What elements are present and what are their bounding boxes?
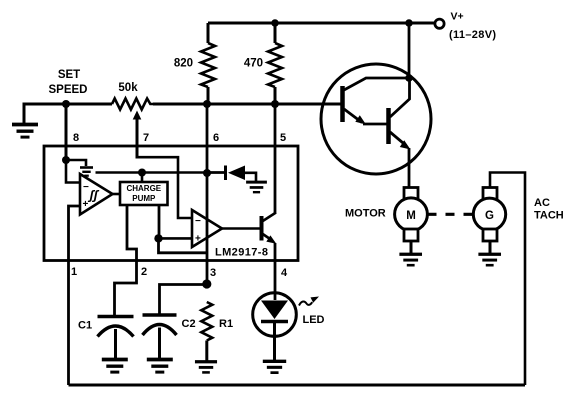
ground internal op-amp [80, 168, 93, 176]
diode zener [207, 171, 226, 174]
svg-text:CHARGE: CHARGE [126, 184, 161, 193]
svg-text:LED: LED [303, 314, 325, 326]
svg-text:−: − [83, 182, 89, 193]
svg-text:4: 4 [281, 267, 288, 279]
node pin 3 junction [202, 279, 211, 288]
svg-text:TACH: TACH [534, 210, 564, 222]
wire op2 out to Q3 base [222, 227, 260, 230]
wire to internal ground [66, 160, 86, 166]
wire bottom rail [69, 384, 526, 387]
wire pin3 to C2 [160, 285, 207, 315]
svg-text:6: 6 [213, 132, 219, 144]
pot wiper arrow (pin 7) [133, 111, 142, 120]
transistor darlington circle [321, 64, 431, 174]
svg-text:1: 1 [71, 266, 77, 278]
node SET SPEED ground [23, 104, 26, 124]
LED D1 [253, 293, 297, 337]
svg-text:LM2917-8: LM2917-8 [215, 247, 268, 259]
node V+ / collector riser [405, 19, 413, 27]
svg-text:MOTOR: MOTOR [345, 208, 386, 220]
svg-text:C2: C2 [182, 318, 196, 330]
IC box LM2917-8 [44, 146, 298, 261]
wire motor shaft coupling [428, 213, 474, 216]
node pin6 junction [203, 169, 211, 177]
resistor R1 [201, 302, 212, 341]
svg-text:G: G [485, 210, 494, 222]
wire charge pump to pin 2 [115, 205, 137, 316]
svg-text:M: M [406, 210, 416, 222]
potentiometer 50k [112, 99, 153, 110]
charge pump box [120, 182, 168, 205]
svg-text:3: 3 [210, 267, 216, 279]
wire pin6 to pin3 [206, 104, 209, 284]
node 470/pin5 [271, 100, 279, 108]
LED light arrow [299, 301, 312, 305]
node charge pump tap [138, 169, 146, 177]
transistor Q1 [340, 86, 345, 122]
svg-text:5: 5 [280, 132, 286, 144]
node 820/pin6 [203, 100, 211, 108]
wire pin8 to op1 minus [66, 160, 80, 183]
wire op1 out to charge pump [112, 193, 120, 196]
svg-text:8: 8 [73, 132, 79, 144]
svg-text:R1: R1 [219, 318, 233, 330]
svg-text:2: 2 [141, 266, 147, 278]
wire charge pump to op2 plus [158, 205, 161, 238]
wire op1 plus to pin 1 [69, 206, 81, 385]
wire pin 5 [274, 104, 277, 213]
svg-text:50k: 50k [118, 82, 138, 94]
wire pin 4 to LED [274, 243, 277, 300]
svg-text:820: 820 [174, 58, 193, 70]
svg-text:−: − [195, 216, 201, 227]
wire V+ top rail [208, 22, 435, 25]
capacitor C2 [143, 313, 177, 317]
svg-text:+: + [195, 234, 201, 245]
svg-text:AC: AC [534, 197, 550, 209]
resistor 470 [271, 19, 279, 27]
transistor Q3 [260, 216, 264, 241]
svg-text:+: + [83, 199, 89, 210]
svg-text:SPEED: SPEED [49, 84, 88, 96]
node pin8 inner junction [62, 156, 70, 164]
wire to darlington base [153, 103, 341, 106]
svg-text:SET: SET [58, 69, 80, 81]
wire emitter to motor [408, 148, 411, 188]
wire pin 8 [65, 104, 68, 160]
wire tach feedback [490, 173, 525, 386]
transistor Q2 [386, 108, 391, 144]
wire internal rail [96, 171, 226, 174]
wire set-speed rail [23, 103, 113, 106]
svg-text:V+: V+ [451, 11, 464, 23]
wire pin7 to op2 minus [137, 157, 192, 218]
generator G (AC tach) [483, 188, 497, 200]
ground zener [246, 182, 267, 192]
op-amp U1A [80, 174, 113, 215]
svg-text:470: 470 [244, 58, 263, 70]
svg-text:PUMP: PUMP [132, 194, 156, 203]
op-amp U1B [192, 210, 222, 247]
resistor 820 [207, 23, 210, 43]
svg-text:C1: C1 [78, 320, 92, 332]
wire collector riser [408, 23, 411, 78]
node pin8 junction [62, 100, 70, 108]
svg-text:7: 7 [143, 132, 149, 144]
terminal V+ [435, 19, 444, 28]
svg-text:(11–28V): (11–28V) [449, 29, 496, 41]
